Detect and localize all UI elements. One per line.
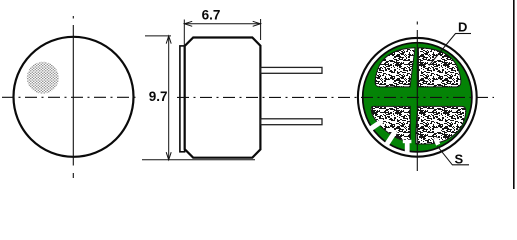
pin 2 (bottom lead) bbox=[261, 119, 322, 125]
svg-text:9.7: 9.7 bbox=[149, 89, 168, 104]
bottom-right solder lobe (S pad) bbox=[416, 106, 466, 144]
centerline horizontal through side and rear views bbox=[177, 96, 494, 98]
svg-text:S: S bbox=[455, 151, 464, 166]
front circle bbox=[14, 37, 134, 157]
extension line bottom bbox=[142, 159, 255, 161]
extension line right bbox=[260, 19, 262, 40]
leader line S bbox=[438, 146, 453, 165]
pad slot B (lower left) bbox=[385, 129, 398, 145]
sound hole (halftone) bbox=[27, 62, 59, 94]
centerline vertical left view bbox=[72, 16, 74, 178]
top-right solder lobe (D pad) bbox=[418, 48, 460, 87]
arrow right bbox=[253, 21, 261, 26]
green pcb disc bbox=[363, 43, 472, 152]
centerline vertical rear view bbox=[416, 22, 418, 172]
pin 1 (top lead) bbox=[261, 67, 322, 73]
dimension line 9.7 bbox=[168, 37, 170, 159]
svg-text:6.7: 6.7 bbox=[202, 7, 221, 22]
pad slot A (upper left) bbox=[370, 119, 384, 131]
page background bbox=[0, 0, 517, 189]
arrow down bbox=[166, 152, 171, 160]
pad slot C (bottom, T shaped) bbox=[405, 142, 410, 153]
front rim flange bbox=[180, 46, 185, 152]
top-left solder lobe (D pad) bbox=[375, 48, 415, 87]
svg-text:D: D bbox=[458, 20, 467, 35]
arrow up bbox=[166, 36, 171, 44]
bottom-left solder lobe (S pad) bbox=[371, 106, 410, 141]
extension line top bbox=[145, 35, 171, 37]
label D underline bbox=[455, 33, 471, 35]
leader line D bbox=[429, 34, 456, 66]
label S underline bbox=[452, 164, 469, 166]
capsule body bbox=[185, 38, 261, 158]
arrow left bbox=[184, 21, 192, 26]
dimension line 6.7 bbox=[185, 23, 260, 25]
frame border right edge bbox=[513, 0, 515, 189]
centerline horizontal left view bbox=[2, 96, 140, 98]
extension line left bbox=[183, 20, 185, 51]
outer case ring bbox=[358, 38, 477, 157]
pad slot D (lower right) bbox=[433, 137, 440, 146]
